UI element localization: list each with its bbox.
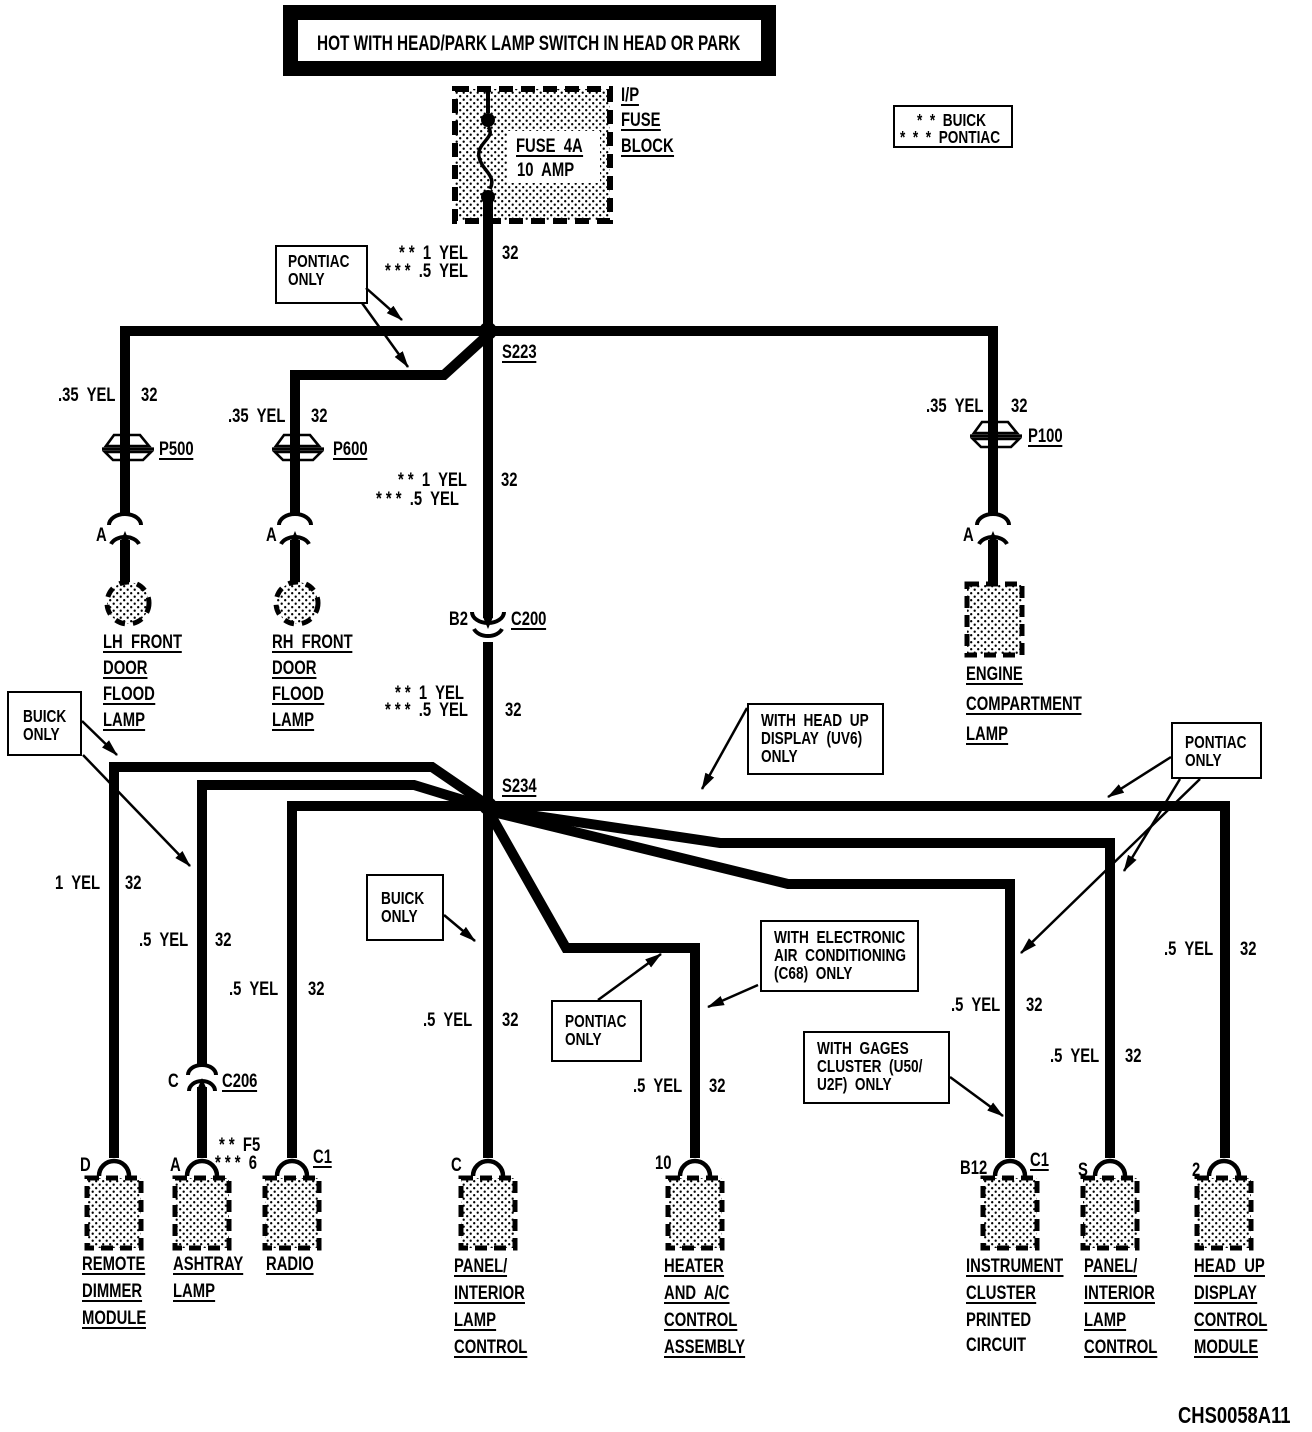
grommet P500	[102, 435, 154, 460]
wire: S234 to heater/AC	[489, 812, 695, 1158]
connector pin S at panel/interior lamp control (right)	[1095, 1161, 1125, 1176]
pin 2	[1192, 1162, 1200, 1179]
pin A (engine lamp connector)	[963, 527, 974, 544]
wire: left branch down to P500 / LH lamp	[120, 326, 130, 514]
pin C (C206)	[168, 1073, 179, 1090]
pin A (RH lamp connector)	[266, 527, 277, 544]
arrow from PONTIAC ONLY heater box	[598, 954, 661, 1000]
grommet label P100	[1028, 428, 1063, 447]
grommet label P600	[333, 441, 368, 460]
PONTIAC ONLY right box	[1171, 722, 1262, 779]
wire: fuse feed inside block	[486, 89, 490, 113]
connector pin D at remote dimmer module	[99, 1161, 129, 1176]
engine compartment lamp box	[967, 584, 1022, 655]
legend box	[893, 105, 1013, 148]
value label .5 YEL (Pontiac)	[376, 491, 459, 508]
connector pin A at ashtray lamp	[187, 1161, 217, 1176]
wire: S234 to ashtray lamp (left col 2)	[202, 785, 486, 1066]
connector label C1 (instrument cluster)	[1030, 1152, 1049, 1171]
value label .5 YEL (Pontiac)	[385, 702, 468, 719]
pin B12	[960, 1160, 987, 1177]
grommet label P500	[159, 441, 194, 460]
wire: S234 to instrument cluster	[489, 811, 1010, 1158]
fuse 4A element (wiggle)	[479, 127, 492, 189]
connector A (P100 column)	[977, 514, 1009, 544]
fuse top terminal dot	[481, 113, 495, 127]
connector C206	[188, 1065, 216, 1091]
banner box: HOT WITH HEAD/PARK LAMP SWITCH IN HEAD OR PARK	[291, 13, 769, 69]
value label .5 YEL	[423, 1012, 472, 1029]
circuit number 32	[1240, 941, 1256, 958]
wire: S234 to remote dimmer module (left col 1)	[114, 767, 486, 1158]
circuit number 32	[502, 1012, 518, 1029]
banner text	[317, 35, 740, 52]
circuit number 32	[215, 932, 231, 949]
value label 1 YEL (Buick)	[395, 685, 464, 702]
circuit number 32	[308, 981, 324, 998]
remote dimmer module box	[87, 1178, 141, 1248]
fuse labels	[516, 138, 583, 157]
arrow from WITH GAGES CLUSTER box	[950, 1077, 1003, 1116]
PONTIAC ONLY heater box	[551, 1000, 642, 1062]
pin B2 (C200)	[449, 611, 468, 628]
value label .5 YEL (Pontiac)	[385, 263, 468, 280]
fuse bottom terminal dot	[481, 190, 495, 204]
LH front door flood lamp	[107, 582, 149, 624]
connector C1 pin F5/6 at radio	[277, 1161, 307, 1176]
junction S223	[479, 322, 497, 340]
connector label C206	[222, 1073, 257, 1092]
WITH ELECTRONIC AC box	[760, 920, 919, 992]
value label 1 YEL (Buick)	[398, 472, 467, 489]
wire: fuse output down to S223	[483, 200, 493, 331]
pin 10	[655, 1155, 671, 1172]
pin A	[170, 1157, 181, 1174]
grommet P100	[970, 422, 1022, 447]
circuit number 32	[709, 1078, 725, 1095]
value label .5 YEL (heater wire)	[633, 1078, 682, 1095]
wire: C200 to S234	[483, 642, 493, 806]
wire: S234 to head up display (top right)	[488, 806, 1225, 1158]
pin C	[451, 1157, 462, 1174]
radio box	[265, 1178, 319, 1248]
wire: S234 to radio (left col 3)	[292, 806, 488, 1158]
circuit number 32	[1125, 1048, 1141, 1065]
pin A (LH lamp connector)	[96, 527, 107, 544]
connector pin 10 at heater and A/C control assembly	[680, 1161, 710, 1176]
connector label C200	[511, 611, 546, 630]
RH front door flood lamp	[276, 582, 318, 624]
connector pin 2 at head up display control module	[1209, 1161, 1239, 1176]
heater and A/C control assembly box	[668, 1178, 722, 1248]
value label .35 YEL (P100 wire)	[926, 398, 983, 415]
module labels	[82, 1256, 145, 1275]
arrow from WITH HEAD UP DISPLAY box	[702, 708, 747, 789]
arrow from BUICK ONLY center box	[444, 915, 475, 941]
value label .5 YEL (instrument wire)	[951, 997, 1000, 1014]
circuit number 32	[502, 245, 518, 262]
connector C200	[472, 612, 504, 636]
connector C1 pin B12 at instrument cluster	[995, 1161, 1025, 1176]
wire: S234 to panel/interior lamp control right	[489, 809, 1110, 1158]
value label 1 YEL	[55, 875, 100, 892]
wire: S223 horizontal bus	[125, 326, 993, 336]
instrument cluster printed circuit box	[983, 1178, 1037, 1248]
value label .35 YEL (P500 wire)	[58, 387, 115, 404]
circuit number 32	[311, 408, 327, 425]
pin D	[80, 1157, 91, 1174]
grommet P600	[272, 435, 324, 460]
circuit number 32	[1026, 997, 1042, 1014]
ashtray lamp box	[175, 1178, 229, 1248]
connector A (P600 column)	[279, 514, 311, 544]
head up display control module box	[1197, 1178, 1251, 1248]
PONTIAC ONLY top box	[275, 245, 368, 304]
fuse block I/P dashed box	[455, 89, 610, 221]
arrows from BUICK ONLY left box	[82, 721, 117, 755]
wire: main feed S223 to C200	[483, 336, 493, 618]
circuit number 32	[1011, 398, 1027, 415]
pin F5 (Buick)	[219, 1137, 260, 1154]
arrows from PONTIAC ONLY top box	[366, 288, 402, 320]
panel/interior lamp control box (right)	[1083, 1178, 1137, 1248]
circuit number 32	[501, 472, 517, 489]
value label .5 YEL (head up wire)	[1164, 941, 1213, 958]
panel/interior lamp control box	[461, 1178, 515, 1248]
WITH HEAD UP DISPLAY box	[747, 703, 884, 775]
value label .35 YEL (P600 wire)	[228, 408, 285, 425]
connector A (P500 column)	[109, 514, 141, 544]
diagram id	[1178, 1407, 1291, 1424]
lamp labels	[103, 634, 182, 653]
circuit number 32	[505, 702, 521, 719]
splice label S223	[502, 344, 537, 363]
junction S234	[479, 797, 497, 815]
value label .5 YEL	[229, 981, 278, 998]
BUICK ONLY left box	[7, 691, 82, 756]
arrows from PONTIAC ONLY right box	[1108, 757, 1171, 797]
wire: P600 branch diagonal from S223	[295, 333, 490, 375]
wire: S234 down to panel/interior lamp control (center)	[483, 806, 493, 1158]
BUICK ONLY center box	[366, 874, 444, 941]
WITH GAGES CLUSTER box	[803, 1031, 950, 1104]
pin 6 (Pontiac)	[215, 1155, 257, 1172]
connector pin C at panel/interior lamp control	[473, 1161, 503, 1176]
pin S	[1078, 1162, 1088, 1179]
circuit number 32	[141, 387, 157, 404]
connector label C1 (radio)	[313, 1149, 332, 1168]
value label 1 YEL (Buick)	[399, 245, 468, 262]
value label .5 YEL (panel wire)	[1050, 1048, 1099, 1065]
splice label S234	[502, 778, 537, 797]
value label .5 YEL	[139, 932, 188, 949]
wire: right branch down to P100 / engine lamp	[988, 326, 998, 514]
circuit number 32	[125, 875, 141, 892]
arrow from WITH ELECTRONIC AC box	[708, 985, 758, 1007]
